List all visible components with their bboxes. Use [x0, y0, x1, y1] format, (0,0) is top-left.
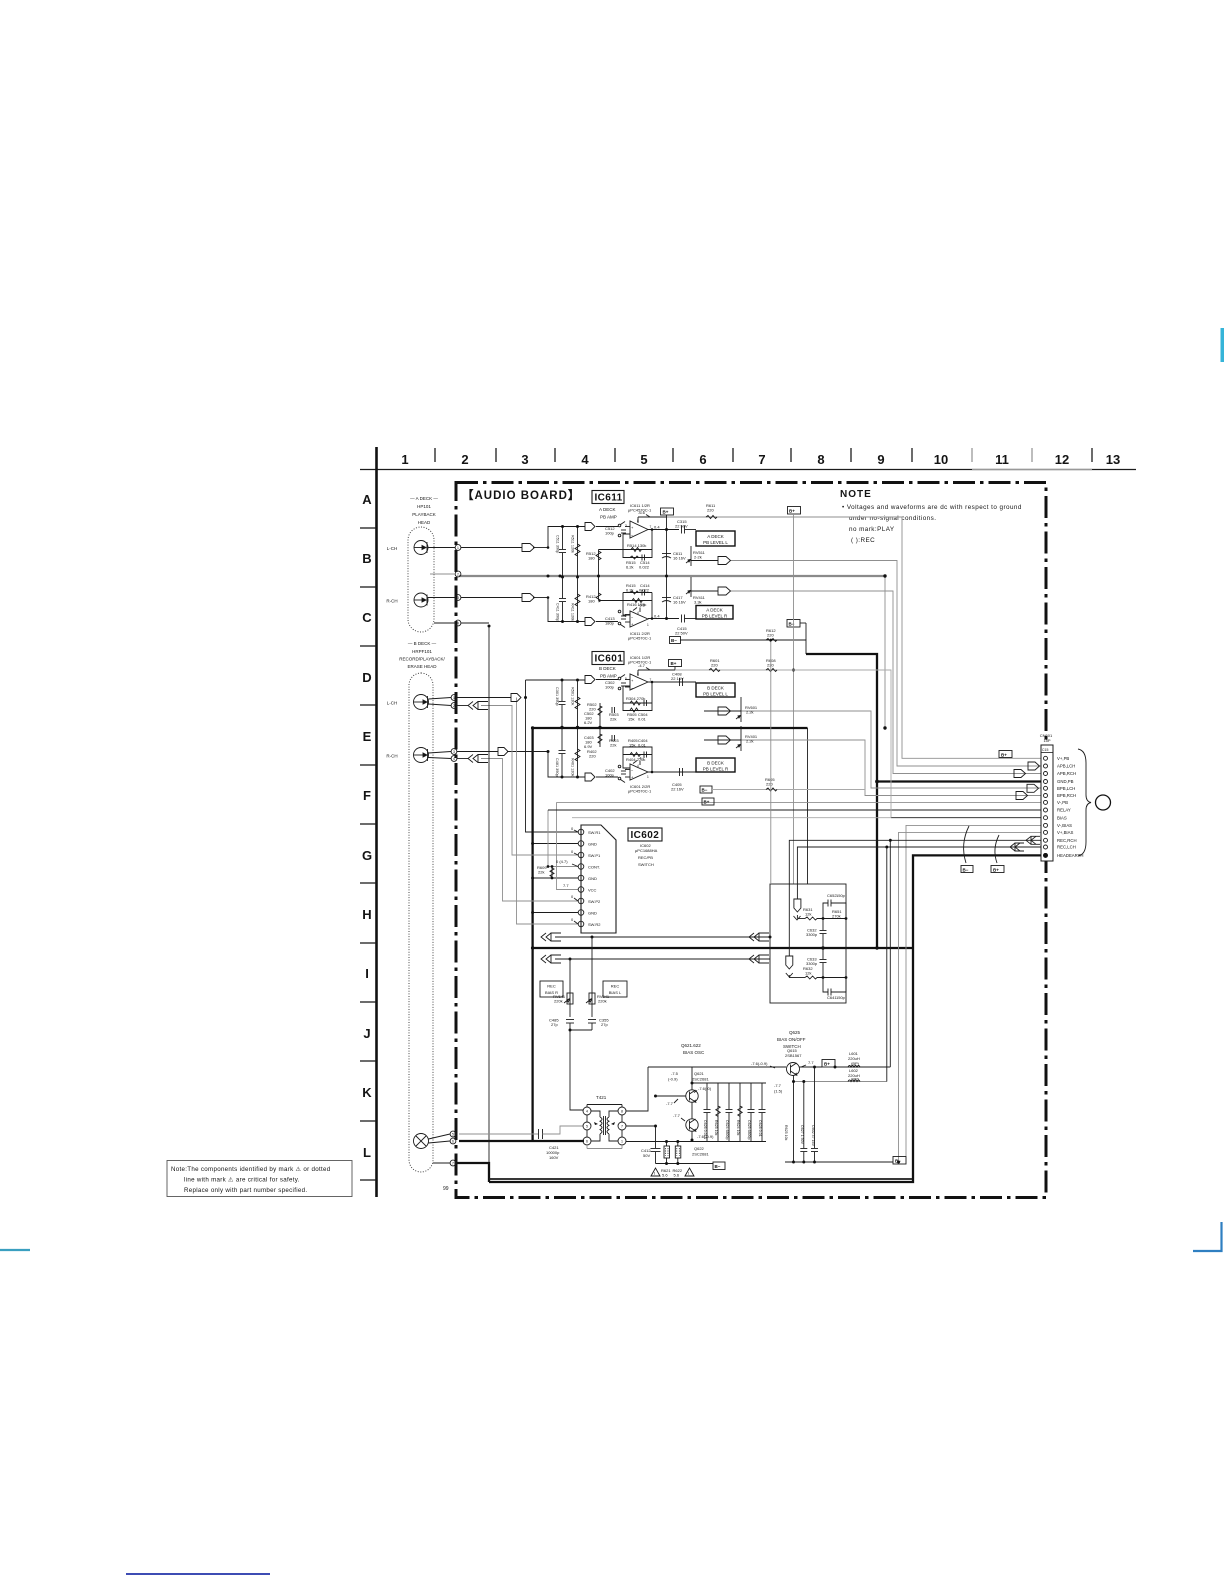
- wire: REC R bias feed row: [555, 936, 770, 938]
- svg-text:C: C: [362, 610, 372, 625]
- svg-text:4: 4: [581, 452, 589, 467]
- wire: V-,PB line: [557, 801, 1042, 803]
- label B DECK PB AMP: [599, 666, 617, 679]
- rec/pb head R-CH: [414, 748, 429, 763]
- B+ tag IC601: [669, 660, 682, 671]
- wire: V+,BIAS line: [899, 832, 1042, 1162]
- svg-text:0.01: 0.01: [638, 743, 647, 748]
- svg-text:2: 2: [453, 704, 455, 708]
- wire: GND PB to connector thick: [877, 780, 1041, 782]
- svg-text:( ):REC: ( ):REC: [851, 537, 875, 544]
- svg-text:D: D: [362, 670, 371, 685]
- svg-text:6: 6: [699, 452, 706, 467]
- svg-text:C625 6800p: C625 6800p: [747, 1120, 751, 1140]
- label C302 100p: [605, 680, 615, 690]
- tank R624: [736, 1083, 742, 1142]
- svg-text:5: 5: [452, 1133, 454, 1137]
- svg-text:3: 3: [457, 596, 459, 600]
- svg-text:IC601: IC601: [595, 654, 624, 665]
- return arrow REC LCH: [1010, 843, 1024, 851]
- label Q622 2SC2681: [692, 1146, 709, 1157]
- svg-text:L-CH: L-CH: [387, 701, 398, 706]
- erase head: [414, 1134, 429, 1149]
- svg-text:GND: GND: [588, 842, 597, 847]
- playback head L-CH: [414, 541, 428, 555]
- svg-text:RELAY: RELAY: [1057, 808, 1071, 813]
- capacitor C405: [671, 768, 684, 792]
- capacitor C315: [675, 519, 696, 534]
- wire: HEADEARTH thick: [489, 855, 1041, 1182]
- svg-text:27p: 27p: [601, 1022, 608, 1027]
- safety resistor R622: [675, 1142, 681, 1164]
- feedback loop IC611a: [623, 530, 652, 561]
- voltage pointer ticks: [572, 830, 578, 924]
- wire: head shield vertical: [488, 626, 490, 1163]
- IC602 body pentagon: [581, 825, 616, 933]
- labels R621 R622: [661, 1168, 683, 1178]
- svg-text:5.6: 5.6: [662, 1173, 668, 1178]
- svg-text:-6.6: -6.6: [638, 603, 646, 608]
- svg-text:RECORD/PLAYBACK/: RECORD/PLAYBACK/: [399, 657, 445, 662]
- svg-text:R401 120k: R401 120k: [571, 758, 575, 776]
- svg-text:12: 12: [1055, 452, 1069, 467]
- svg-text:5: 5: [586, 1125, 588, 1129]
- B+ tag bias: [822, 1060, 835, 1068]
- REC BIAS L box: [603, 981, 627, 997]
- resistor R612: [766, 628, 777, 642]
- svg-text:2SC2681: 2SC2681: [692, 1152, 709, 1157]
- svg-text:R304 270k: R304 270k: [626, 696, 645, 701]
- svg-text:ERASE HEAD: ERASE HEAD: [407, 664, 437, 669]
- svg-text:PLAYBACK: PLAYBACK: [412, 512, 435, 517]
- svg-text:V+,BIAS: V+,BIAS: [1057, 830, 1073, 835]
- op-amp IC611b: [625, 608, 649, 628]
- trimmer RV641: [553, 959, 573, 1017]
- svg-text:4: 4: [637, 764, 639, 768]
- svg-text:HRPF101: HRPF101: [412, 649, 432, 654]
- headearth pin dot: [1043, 853, 1048, 858]
- svg-text:line with mark ⚠ are critical: line with mark ⚠ are critical for safety…: [184, 1177, 300, 1184]
- svg-text:2SC2681: 2SC2681: [692, 1077, 709, 1082]
- B- tag IC601: [700, 786, 712, 793]
- trimmer RV511: [686, 546, 706, 566]
- input wire to IC611b: [596, 621, 618, 623]
- resistor R512: [586, 550, 623, 577]
- svg-text:C411 390p: C411 390p: [556, 603, 560, 621]
- bias box dots: [821, 917, 847, 979]
- osc base branch: [656, 1095, 687, 1097]
- svg-text:PB LEVEL R: PB LEVEL R: [703, 767, 729, 772]
- A BECK PB LEVEL L box: [696, 531, 735, 546]
- REC BIAS R box: [540, 981, 563, 997]
- jumper arc from B+: [995, 835, 999, 863]
- brace: [1078, 749, 1091, 856]
- svg-text:6.2V: 6.2V: [584, 720, 593, 725]
- svg-text:!: !: [688, 1171, 689, 1176]
- voltage 7.7 q625: [801, 1060, 814, 1067]
- svg-text:REC/PB: REC/PB: [638, 855, 653, 860]
- svg-text:100p: 100p: [605, 685, 615, 690]
- svg-text:9: 9: [877, 452, 884, 467]
- svg-text:0.022: 0.022: [639, 565, 650, 570]
- svg-text:150p: 150p: [836, 893, 846, 898]
- capacitor C415: [675, 615, 696, 636]
- svg-text:220: 220: [766, 782, 773, 787]
- wire: IC602 GND stubs: [533, 843, 578, 845]
- svg-text:C627 1 50V: C627 1 50V: [800, 1125, 804, 1145]
- svg-text:1: 1: [401, 452, 408, 467]
- capacitor C481: [555, 728, 566, 778]
- trimmer RV341: [586, 937, 610, 1017]
- svg-text:5.6: 5.6: [674, 1173, 680, 1178]
- wire: REC L drop to IC602 SW.R1: [526, 680, 579, 832]
- wire: REC LCH line: [797, 847, 1041, 899]
- return arrow B L-CH: [468, 702, 488, 710]
- svg-text:C626 0.015: C626 0.015: [703, 1120, 707, 1139]
- middle RC cluster parts upper: [598, 703, 639, 728]
- svg-text:13: 13: [1106, 452, 1120, 467]
- wire: B-deck L-CH input line: [526, 679, 586, 681]
- svg-text:no mark:PLAY: no mark:PLAY: [849, 526, 895, 533]
- svg-text:8: 8: [621, 1110, 623, 1114]
- svg-text:C301 390p: C301 390p: [555, 687, 559, 706]
- B head pin 4: [429, 756, 457, 762]
- svg-text:PB LEVEL L: PB LEVEL L: [703, 692, 728, 697]
- svg-text:6: 6: [586, 1140, 588, 1144]
- bias feed wire from B+: [638, 669, 675, 671]
- voltage -7.7 q622: [673, 1113, 685, 1121]
- svg-text:8: 8: [637, 672, 639, 676]
- svg-text:1: 1: [647, 623, 649, 627]
- capacitor C633: [806, 948, 827, 978]
- svg-text:R514 130k: R514 130k: [627, 543, 646, 548]
- svg-text:2: 2: [461, 452, 468, 467]
- svg-text:3: 3: [625, 524, 627, 528]
- wire: thick erase head line: [459, 1140, 584, 1142]
- rail dots: [691, 1066, 901, 1164]
- svg-text:-4.7: -4.7: [638, 756, 646, 761]
- svg-text:• Voltages and waveforms are d: • Voltages and waveforms are dc with res…: [842, 504, 1022, 511]
- svg-text:27p: 27p: [551, 1022, 558, 1027]
- wire: B-deck R-CH to pb network: [507, 752, 585, 778]
- A BECK PB LEVEL R box: [696, 606, 733, 620]
- label R651 270k: [832, 909, 842, 919]
- loop C641: [823, 978, 846, 1001]
- safety mark triangles: [651, 1168, 694, 1176]
- output wire IC611a: [648, 529, 679, 531]
- voltage -7.6(-0.9) q625: [751, 1061, 775, 1068]
- svg-text:(BP): (BP): [851, 1061, 860, 1066]
- wire: R-CH return to SW.P2: [481, 759, 578, 902]
- svg-text:B+: B+: [663, 510, 669, 515]
- svg-text:-7.7: -7.7: [774, 1083, 782, 1088]
- wire Q625 to B+: [800, 1066, 823, 1068]
- wire: thick gnd rail mid: [533, 947, 912, 949]
- return arrow B R-CH: [468, 755, 488, 763]
- blue line bottom left: [126, 1573, 270, 1575]
- board dash-dot border: [456, 483, 1046, 1198]
- voltage -7.6(-0): [694, 1086, 712, 1093]
- wire: thick B- bus to GND: [806, 654, 877, 948]
- svg-text:−: −: [631, 615, 634, 620]
- svg-text:22k: 22k: [538, 870, 544, 875]
- wire: relay control drop to CONT: [548, 810, 578, 867]
- label L602: [848, 1068, 860, 1082]
- jumper arc from B-: [964, 826, 969, 863]
- feedback loop IC601b: [623, 747, 652, 772]
- cyan registration line left: [0, 1249, 30, 1251]
- wire: BIAS line: [572, 817, 891, 819]
- svg-text:0 (4.7): 0 (4.7): [556, 859, 568, 864]
- svg-text:L: L: [363, 1145, 371, 1160]
- wire: B-deck gnd thick bus: [533, 727, 808, 729]
- svg-text:A DECK: A DECK: [599, 507, 616, 512]
- svg-text:R-CH: R-CH: [386, 754, 397, 759]
- wire: gnd drop to bias feed: [807, 728, 809, 884]
- svg-text:3: 3: [453, 750, 455, 754]
- svg-text:IC611: IC611: [595, 493, 623, 504]
- svg-text:5: 5: [640, 452, 647, 467]
- B- tag under connector: [961, 866, 973, 873]
- svg-text:BIAS L: BIAS L: [609, 990, 622, 995]
- svg-text:V-,BIAS: V-,BIAS: [1057, 823, 1072, 828]
- svg-text:A DECK: A DECK: [707, 534, 724, 539]
- svg-text:0: 0: [571, 894, 574, 899]
- svg-text:220: 220: [767, 633, 774, 638]
- junction dots: [488, 574, 1047, 960]
- svg-text:BPB,LCH: BPB,LCH: [1057, 786, 1075, 791]
- label R515 C514: [626, 560, 650, 570]
- svg-text:4: 4: [457, 622, 459, 626]
- return arrow REC R row: [541, 933, 561, 941]
- svg-text:12k: 12k: [805, 971, 811, 976]
- svg-text:50V: 50V: [643, 1153, 650, 1158]
- tank C624: [725, 1083, 733, 1142]
- left row letters: [362, 492, 372, 1160]
- label IC601 1/2R: [628, 655, 652, 665]
- feedback loop IC601a: [623, 682, 652, 711]
- svg-text:6: 6: [452, 1140, 454, 1144]
- wire from B- tag: [712, 789, 865, 791]
- svg-text:REC,LCH: REC,LCH: [1057, 845, 1076, 850]
- junction dots IC611: [547, 528, 669, 620]
- svg-text:2-2k: 2-2k: [694, 555, 702, 560]
- svg-text:220k: 220k: [598, 999, 607, 1004]
- resistor R611 on supply: [706, 503, 717, 519]
- left ruler ticks: [360, 528, 376, 1180]
- svg-text:99: 99: [443, 1186, 449, 1192]
- trimmer RV601: [736, 697, 758, 722]
- wire: erase shield thick: [457, 1163, 489, 1182]
- svg-text:3: 3: [521, 452, 528, 467]
- svg-text:BIAS ON/OFF: BIAS ON/OFF: [777, 1037, 806, 1042]
- B head pin 5: [429, 1131, 456, 1139]
- op-amp IC601a: [625, 670, 652, 691]
- transformer T421: [583, 1095, 626, 1149]
- svg-text:C15: C15: [1042, 748, 1048, 752]
- wire RV511 row: [691, 560, 718, 562]
- svg-text:A: A: [362, 492, 372, 507]
- signal arrow B L-CH rec: [511, 694, 521, 702]
- svg-text:I: I: [365, 966, 369, 981]
- transistor Q622: [686, 1119, 698, 1132]
- svg-text:C602 47 16V: C602 47 16V: [811, 1125, 815, 1147]
- svg-text:-6.6: -6.6: [638, 510, 646, 515]
- svg-text:0.022: 0.022: [639, 588, 650, 593]
- svg-text:VCC: VCC: [588, 888, 597, 893]
- connector pins: [1044, 756, 1048, 857]
- label R415 C414: [626, 583, 650, 593]
- svg-text:−: −: [631, 768, 634, 773]
- wire: A-deck ground bus (gray thick): [459, 575, 885, 577]
- B head pin 7: [433, 1160, 456, 1166]
- svg-text:R411 120k: R411 120k: [571, 603, 575, 621]
- voltage -4.7 b: [633, 756, 646, 764]
- svg-text:6.2k: 6.2k: [626, 565, 634, 570]
- B- tag bottom: [713, 1162, 725, 1170]
- svg-text:11: 11: [995, 452, 1009, 467]
- B- tag: [670, 637, 681, 644]
- label C402 100p: [605, 768, 615, 778]
- svg-text:1: 1: [621, 1140, 623, 1144]
- svg-text:REC: REC: [547, 984, 556, 989]
- svg-text:+: +: [631, 678, 634, 683]
- pin exit wires A deck: [461, 547, 522, 549]
- wire: rec return to SW.R2: [517, 698, 579, 925]
- B- return row under oscillator: [656, 1163, 714, 1165]
- svg-text:Q621.622: Q621.622: [681, 1043, 701, 1048]
- power arrow down 1: [794, 899, 801, 920]
- label IC601 2/2R: [628, 784, 652, 794]
- label Q621 2SC2681: [692, 1071, 709, 1082]
- svg-text:BIAS OSC: BIAS OSC: [683, 1050, 705, 1055]
- connector pin labels: [1057, 756, 1083, 858]
- left ruler line: [375, 447, 378, 1197]
- signal arrow APB RCH in: [1014, 770, 1026, 778]
- svg-text:(-0.9): (-0.9): [668, 1077, 678, 1082]
- osc tank rails: [692, 1082, 766, 1084]
- svg-text:B+: B+: [993, 868, 999, 873]
- output wire IC601b: [648, 771, 696, 773]
- svg-text:B−: B−: [715, 1164, 721, 1169]
- input mute switch C512: [618, 522, 630, 537]
- svg-text:SWITCH: SWITCH: [638, 862, 654, 867]
- svg-text:R-CH: R-CH: [386, 599, 397, 604]
- B+ tag 2 IC601: [702, 798, 714, 805]
- IC602 pin names: [588, 830, 601, 927]
- svg-text:1: 1: [647, 775, 649, 779]
- voltage -7.7 q621: [666, 1099, 678, 1106]
- svg-text:2: 2: [457, 573, 459, 577]
- svg-text:0.4: 0.4: [654, 525, 660, 530]
- return arrow REC RCH: [1026, 836, 1040, 844]
- svg-text:【AUDIO BOARD】: 【AUDIO BOARD】: [462, 489, 580, 502]
- label C512 100p: [605, 526, 615, 536]
- svg-text:R501 120k: R501 120k: [571, 687, 575, 705]
- svg-text:B: B: [362, 551, 371, 566]
- svg-text:2: 2: [625, 767, 627, 771]
- svg-text:-7.7: -7.7: [666, 1101, 674, 1106]
- wire: emitter row to L602: [794, 1081, 887, 1083]
- wire RV601 row: [704, 710, 741, 712]
- voltage -4.7: [638, 663, 650, 670]
- svg-text:160V: 160V: [549, 1155, 559, 1160]
- B head pin 1: [429, 695, 457, 701]
- svg-text:— B DECK —: — B DECK —: [408, 641, 437, 646]
- A deck head label text: [410, 496, 438, 525]
- resistor R605: [765, 777, 777, 791]
- svg-text:22 50V: 22 50V: [675, 524, 688, 529]
- dot R609 top: [547, 865, 554, 879]
- svg-text:μPC1688HA: μPC1688HA: [635, 848, 658, 853]
- wire: A-deck B- bus: [680, 640, 806, 654]
- svg-text:-4.7: -4.7: [638, 663, 646, 668]
- B DECK PB LEVEL L box: [696, 683, 735, 697]
- capacitor C632: [806, 919, 827, 949]
- svg-text:B+: B+: [824, 1062, 830, 1067]
- capacitor C412 on dropper: [641, 1126, 661, 1164]
- svg-text:6.2k: 6.2k: [626, 588, 634, 593]
- svg-text:Note:The components identified: Note:The components identified by mark ⚠…: [171, 1166, 331, 1173]
- wire: gray gnd drop to B-deck gnd bus: [884, 576, 886, 728]
- label L601: [848, 1051, 860, 1066]
- svg-text:— A DECK —: — A DECK —: [410, 496, 438, 501]
- wire: V- supply drop to VCC pin: [557, 802, 579, 889]
- svg-text:150p: 150p: [836, 995, 846, 1000]
- tank C626: [703, 1083, 711, 1142]
- voltage -6.6: [638, 510, 650, 517]
- playback head R-CH: [414, 593, 428, 607]
- return arrow bias R mid: [749, 933, 769, 941]
- resistor R401: [571, 728, 581, 778]
- wire: BPB RCH line from RV401: [741, 740, 1041, 796]
- B- tag on bus: [787, 620, 806, 641]
- osc feedback wire top: [648, 1066, 786, 1068]
- transistor Q625: [787, 1063, 800, 1076]
- wire T421 pin7 row: [626, 1125, 656, 1127]
- label Q625 BIAS ON/OFF SWITCH: [777, 1030, 806, 1049]
- svg-text:180: 180: [588, 599, 595, 604]
- op-amp IC601b: [625, 761, 649, 781]
- svg-text:0.01: 0.01: [638, 717, 647, 722]
- svg-text:10: 10: [934, 452, 948, 467]
- wire RV411 row: [691, 590, 718, 592]
- svg-text:7: 7: [758, 452, 765, 467]
- wire: BPB LCH line from RV601: [741, 711, 1041, 788]
- svg-text:(1.5): (1.5): [774, 1089, 783, 1094]
- svg-text:15k: 15k: [629, 743, 635, 748]
- svg-text:PB AMP: PB AMP: [600, 515, 617, 520]
- safety resistor R621: [664, 1142, 670, 1164]
- svg-text:APB,RCH: APB,RCH: [1057, 771, 1076, 776]
- Q621-Q622 link: [691, 1102, 693, 1119]
- A head pin 2: [430, 571, 461, 577]
- svg-text:SW.R2: SW.R2: [588, 922, 601, 927]
- wire T421 pin1 bottom rail: [626, 1141, 766, 1143]
- svg-text:μPC4570C-1: μPC4570C-1: [628, 636, 652, 641]
- svg-text:C624 6800p: C624 6800p: [725, 1120, 729, 1140]
- svg-text:B−: B−: [671, 638, 677, 643]
- B head pin 6: [429, 1138, 456, 1144]
- label Q621 622 BIAS OSC: [681, 1043, 705, 1055]
- svg-text:HP101: HP101: [417, 504, 431, 509]
- tank C625: [747, 1083, 755, 1142]
- wire: bias out to L601: [835, 1066, 890, 1068]
- wire: A-deck gnd drop from pin4: [461, 622, 489, 624]
- svg-text:A DECK: A DECK: [706, 608, 723, 613]
- output wire IC611b: [648, 618, 679, 620]
- signal arrow BPB LCH out: [718, 707, 731, 715]
